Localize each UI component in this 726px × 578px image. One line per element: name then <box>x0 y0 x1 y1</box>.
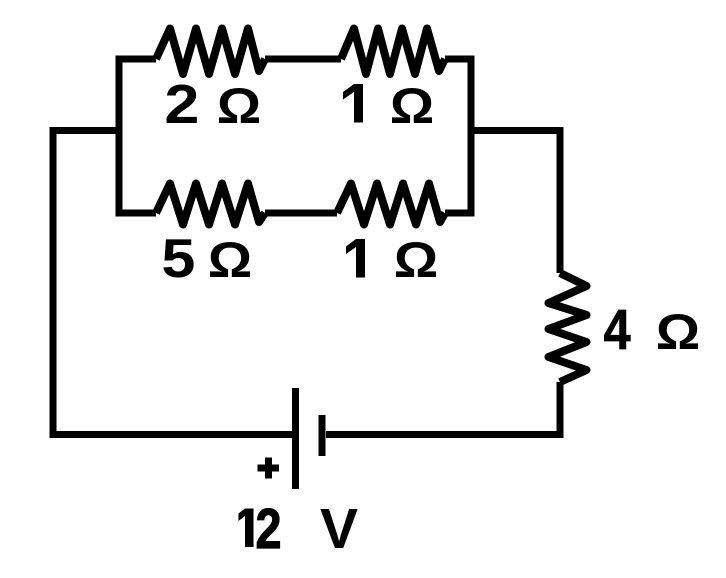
wire: top branch middle segment <box>265 56 341 63</box>
resistor R3 5ohm (bottom-left zigzag) <box>156 184 265 225</box>
wire: bottom branch middle segment <box>265 210 337 217</box>
svg-text:Ω: Ω <box>208 232 253 288</box>
svg-text:V: V <box>320 497 358 561</box>
svg-text:5: 5 <box>161 227 195 289</box>
wire: right connector from block to outer right leg <box>471 131 560 274</box>
battery B1 long plate <box>292 388 299 489</box>
svg-text:Ω: Ω <box>656 304 701 360</box>
plus sign of battery <box>258 458 280 479</box>
wire: left connector and outer left loop <box>53 131 119 439</box>
resistor R4 1ohm (bottom-right zigzag) <box>337 184 445 225</box>
label 12 V: digits 12 <box>239 509 254 548</box>
resistor R5 4ohm (right vertical zigzag) <box>549 273 587 382</box>
svg-text:4: 4 <box>604 298 631 362</box>
wire: block right vertical (parallel section right edge) <box>468 56 475 217</box>
battery B1 short plate <box>319 415 326 456</box>
resistor R2 1ohm (top-right zigzag) <box>341 29 445 75</box>
svg-text:Ω: Ω <box>390 78 435 134</box>
svg-text:Ω: Ω <box>217 78 261 134</box>
svg-text:2: 2 <box>164 73 199 135</box>
wire: block left vertical (parallel section left edge) <box>116 59 123 217</box>
label 1 ohm bottom: digit 1 <box>346 239 365 278</box>
wire: right leg lower segment to battery negative plate <box>326 382 560 435</box>
svg-text:2: 2 <box>256 497 282 561</box>
label 1 ohm top: digit 1 <box>343 84 363 123</box>
wire: top branch right segment <box>445 56 475 63</box>
wire: bottom left horizontal to battery positive plate <box>50 431 293 438</box>
wire: top branch left segment <box>116 56 157 63</box>
wire: bottom branch right segment <box>445 210 471 217</box>
resistor R1 2ohm (top-left zigzag) <box>156 29 265 75</box>
svg-text:Ω: Ω <box>394 232 439 288</box>
wire: bottom branch left segment <box>116 210 157 217</box>
